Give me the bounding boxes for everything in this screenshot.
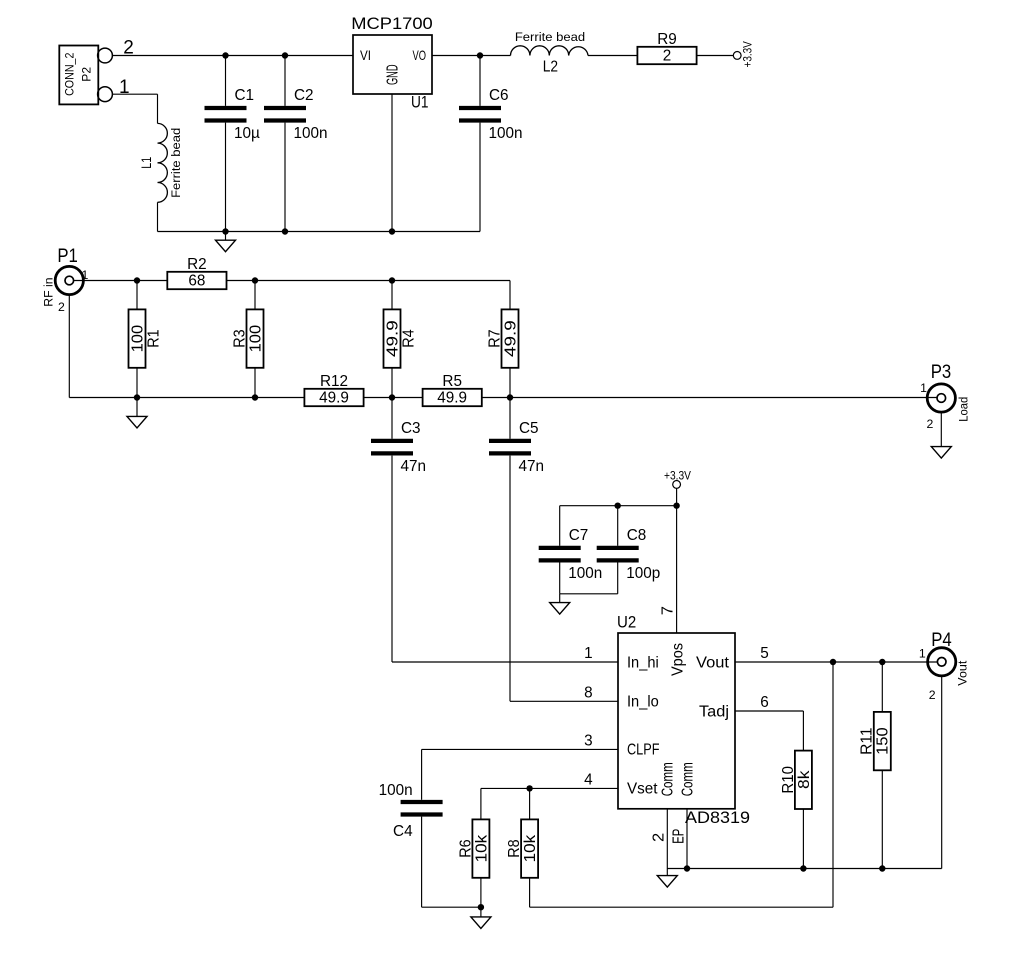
wire P1 pin2 down [68,295,70,398]
svg-text:Ferrite bead: Ferrite bead [169,128,183,198]
junction R11 bottom [879,865,885,871]
svg-text:R2: R2 [187,256,207,273]
junction R3 top [252,277,258,283]
wire R2 to R7 column [227,280,511,282]
svg-text:In_hi: In_hi [627,654,659,671]
svg-text:C8: C8 [627,527,647,544]
svg-text:2: 2 [58,300,65,314]
wire U2 EP pin [686,809,688,869]
wire L2 to R9 [588,55,637,57]
svg-text:1: 1 [920,381,927,395]
resistor R9 2 [637,31,696,65]
svg-text:P4: P4 [931,630,952,651]
svg-text:100n: 100n [379,782,413,799]
wire C8 bottom to C7 [560,593,618,595]
svg-text:8k: 8k [796,770,813,789]
capacitor C1 10u [225,56,227,106]
wire bottom rail [667,868,941,870]
wire load rail left [69,397,304,399]
svg-text:U2: U2 [617,613,636,632]
svg-text:R12: R12 [320,373,348,390]
junction C1 bottom [222,228,228,234]
junction Vpos tap [673,503,679,509]
wire R7 drop [509,281,511,310]
capacitor C5 47n [509,398,511,439]
svg-text:L2: L2 [543,58,558,75]
svg-text:4: 4 [584,771,593,788]
wire U2 Comm pin [666,809,668,869]
resistor R5 49.9 [423,373,482,407]
ground below C7 [550,594,570,614]
svg-text:2: 2 [926,417,933,431]
junction Vout riser [830,659,836,665]
svg-text:100: 100 [129,325,146,353]
svg-text:MCP1700: MCP1700 [351,14,433,33]
ground below R6 [471,907,491,928]
wire R8 to Vout riser [530,906,833,908]
ground below C1 [216,232,236,252]
junction R1 top [134,277,140,283]
svg-text:R6: R6 [457,839,474,857]
svg-text:6: 6 [760,694,769,711]
svg-text:Tadj: Tadj [699,703,729,720]
capacitor C3 47n [391,398,393,439]
svg-text:100n: 100n [294,125,328,142]
inductor L2 Ferrite bead [511,30,589,75]
svg-text:2: 2 [663,48,672,65]
svg-text:CLPF: CLPF [627,742,660,759]
svg-text:C6: C6 [489,87,509,104]
svg-text:100n: 100n [489,125,523,142]
wire Vout [735,661,937,663]
svg-text:Comm: Comm [660,762,677,796]
svg-text:R8: R8 [506,839,523,857]
svg-text:P2: P2 [79,67,93,82]
svg-text:EP: EP [671,829,688,844]
svg-text:1: 1 [584,645,593,662]
junction U1 GND bottom [389,228,395,234]
wire In_lo [510,700,618,702]
power +3.3V terminal [733,41,754,68]
svg-text:R10: R10 [780,766,797,794]
junction C2 bottom [282,228,288,234]
svg-text:R3: R3 [231,329,248,347]
svg-text:R7: R7 [486,329,503,347]
junction R6 bottom [478,904,484,910]
svg-text:+3.3V: +3.3V [664,468,691,482]
junction EP bottom [684,865,690,871]
ground below Comm [657,869,677,888]
connector P2 (CONN_2) [59,37,134,104]
svg-text:RF in: RF in [42,277,56,306]
svg-text:Vset: Vset [627,781,658,798]
junction R3 bottom [252,394,258,400]
svg-text:AD8319: AD8319 [685,808,750,827]
resistor R2 68 [167,256,226,290]
junction R11 top [879,659,885,665]
resistor R11 150 [881,662,883,712]
wire P2 pin2 to U1 VI [112,55,353,57]
junction C6 top [477,52,483,58]
ground below R1 [127,398,147,428]
wire L1 to gnd rail [157,202,159,231]
resistor R1 100 [136,281,138,310]
svg-text:Comm: Comm [680,762,697,796]
svg-text:R1: R1 [146,329,163,347]
svg-text:C2: C2 [294,87,314,104]
capacitor C4 100n [379,782,443,840]
junction C1 top [222,52,228,58]
svg-text:P1: P1 [57,246,78,267]
inductor L1 Ferrite bead [139,123,183,202]
resistor R12 49.9 [304,373,363,407]
capacitor C7 100n [559,506,561,546]
wire P1 pin1 to R2 [74,280,168,282]
svg-text:5: 5 [760,645,769,662]
svg-text:CONN_2: CONN_2 [62,52,76,95]
ground below P3 [931,443,951,458]
svg-text:47n: 47n [401,458,427,475]
wire U1 VO to L2 [432,55,511,57]
svg-text:P3: P3 [931,362,952,383]
capacitor C6 100n [479,56,481,106]
wire R9 to +3.3V [697,55,733,57]
wire CLPF [422,748,618,750]
wire In_hi [392,661,618,663]
svg-text:C5: C5 [519,420,539,437]
junction C5 top [507,394,513,400]
svg-text:2: 2 [929,688,936,702]
junction C8 top [615,503,621,509]
svg-text:49.9: 49.9 [502,320,519,357]
svg-text:Vout: Vout [696,654,730,671]
wire +3.3V rail to Vpos [560,505,677,507]
svg-text:68: 68 [188,273,205,290]
junction R4 top [389,277,395,283]
svg-text:VI: VI [360,47,371,63]
svg-text:+3.3V: +3.3V [740,41,754,68]
svg-text:49.9: 49.9 [437,390,467,407]
svg-text:3: 3 [584,732,593,749]
junction R8 top [526,785,532,791]
op-amp U2 AD8319 body [617,613,750,828]
connector P1 RF in [55,266,83,294]
svg-text:150: 150 [875,727,892,755]
svg-text:C1: C1 [235,87,255,104]
connector P4 Vout [928,648,956,676]
svg-text:C3: C3 [401,420,421,437]
svg-text:100: 100 [247,325,264,353]
junction C2 top [282,52,288,58]
wire load rail right [482,397,937,399]
connector P3 Load [927,384,955,412]
svg-text:C4: C4 [393,823,413,840]
regulator U1 MCP1700 [351,14,433,112]
svg-text:R9: R9 [657,31,677,48]
svg-text:10k: 10k [473,834,490,862]
svg-text:Ferrite bead: Ferrite bead [515,30,585,44]
svg-text:R11: R11 [859,727,876,755]
resistor R3 100 [254,281,256,310]
svg-text:In_lo: In_lo [627,694,659,711]
svg-text:100p: 100p [626,565,660,582]
svg-text:L1: L1 [139,157,154,169]
resistor R8 10k [529,788,531,819]
wire R12 to R5 [364,397,423,399]
svg-text:U1: U1 [411,92,429,111]
svg-text:R5: R5 [442,373,462,390]
wire U1 GND pin [391,94,393,232]
svg-text:GND: GND [385,65,402,86]
junction R1 bottom [134,394,140,400]
svg-text:R4: R4 [401,329,418,348]
svg-text:49.9: 49.9 [384,320,401,357]
wire C4 to R6 gnd [422,906,481,908]
resistor R7 49.9 [486,309,519,367]
svg-text:8: 8 [584,684,593,701]
svg-text:10k: 10k [522,834,539,862]
capacitor C2 100n [284,56,286,106]
svg-text:49.9: 49.9 [319,390,349,407]
wire P2 pin1 [112,93,157,95]
resistor R4 49.9 [391,281,393,310]
wire Tadj [735,710,803,712]
svg-text:VO: VO [413,47,427,63]
junction C3 top [389,394,395,400]
svg-text:10µ: 10µ [234,125,260,142]
svg-text:100n: 100n [568,565,602,582]
wire Vset [481,787,618,789]
capacitor C8 100p [617,506,619,546]
svg-text:47n: 47n [519,458,545,475]
svg-text:Vpos: Vpos [670,643,687,676]
svg-text:Load: Load [957,397,971,422]
wire P3 pin2 [940,412,942,443]
svg-text:7: 7 [659,606,676,615]
svg-text:Vout: Vout [956,660,970,686]
svg-text:C7: C7 [569,527,589,544]
resistor R6 10k [457,819,490,877]
svg-text:2: 2 [651,833,668,842]
resistor R10 8k [780,751,813,809]
svg-text:1: 1 [919,647,926,661]
junction R10 bottom [800,865,806,871]
power +3.3V above U2 [664,468,691,488]
